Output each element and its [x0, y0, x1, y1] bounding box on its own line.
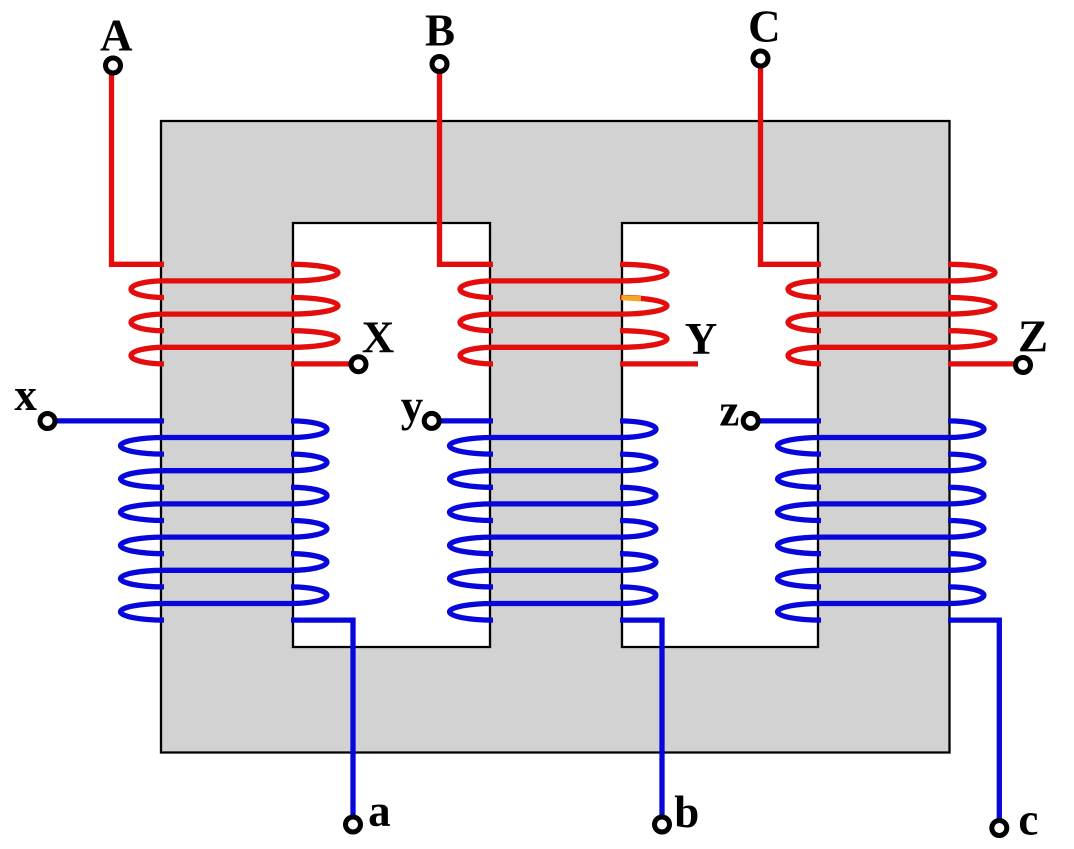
svg-text:X: X	[362, 313, 395, 363]
svg-text:A: A	[100, 11, 133, 61]
svg-text:a: a	[368, 786, 391, 836]
svg-text:Y: Y	[685, 314, 718, 364]
svg-text:Z: Z	[1018, 312, 1048, 362]
svg-text:y: y	[401, 381, 424, 431]
svg-text:b: b	[674, 787, 699, 837]
svg-text:C: C	[748, 1, 781, 51]
svg-text:x: x	[14, 370, 37, 420]
svg-text:z: z	[719, 386, 739, 436]
svg-text:B: B	[425, 5, 455, 55]
svg-text:c: c	[1018, 795, 1038, 845]
